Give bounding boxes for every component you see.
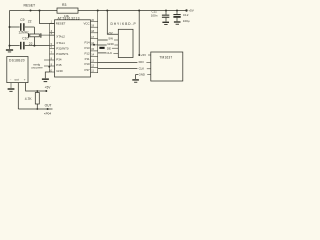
svg-text:TM1637: TM1637 xyxy=(159,55,172,59)
svg-text:100µ: 100µ xyxy=(183,19,190,23)
svg-text:-: - xyxy=(10,77,11,81)
svg-text:VCC: VCC xyxy=(83,22,89,26)
svg-text:XTAL1: XTAL1 xyxy=(56,41,65,45)
svg-text:SW: SW xyxy=(108,37,113,41)
svg-text:DE: DE xyxy=(107,46,111,50)
svg-text:DS18B20: DS18B20 xyxy=(9,58,25,62)
svg-text:DIO: DIO xyxy=(139,60,145,64)
svg-text:12MHz: 12MHz xyxy=(19,30,30,34)
svg-text:GND: GND xyxy=(56,69,62,73)
svg-text:C9: C9 xyxy=(20,18,24,22)
svg-text:C10: C10 xyxy=(22,37,28,41)
svg-text:CLK: CLK xyxy=(139,66,145,70)
svg-text:P35: P35 xyxy=(56,63,62,67)
svg-text:+5V: +5V xyxy=(188,8,195,12)
svg-text:P13: P13 xyxy=(84,46,90,50)
svg-text:P33/INT1: P33/INT1 xyxy=(56,52,69,56)
svg-text:DHY/KBD-P: DHY/KBD-P xyxy=(111,22,137,26)
svg-text:22: 22 xyxy=(29,42,33,46)
svg-text:100n: 100n xyxy=(151,13,158,17)
svg-text:CLK: CLK xyxy=(106,51,112,55)
svg-text:GND: GND xyxy=(139,73,145,77)
svg-text:P12: P12 xyxy=(84,51,90,55)
svg-text:out: out xyxy=(15,77,19,81)
svg-text:XTAL2: XTAL2 xyxy=(56,35,65,39)
svg-text:RESET: RESET xyxy=(24,3,37,7)
svg-text:+5V: +5V xyxy=(45,86,52,90)
svg-text:4.7K: 4.7K xyxy=(25,97,33,101)
svg-text:yny pene: yny pene xyxy=(31,65,43,69)
svg-text:×P04: ×P04 xyxy=(44,111,52,115)
svg-text:ATT8913213: ATT8913213 xyxy=(58,16,80,20)
svg-text:+5V: +5V xyxy=(108,31,113,35)
svg-text:OUT: OUT xyxy=(45,103,52,107)
svg-text:R3: R3 xyxy=(62,3,66,7)
svg-text:P34: P34 xyxy=(56,58,62,62)
svg-text:P32/INT0: P32/INT0 xyxy=(56,47,69,51)
svg-text:+: + xyxy=(24,77,26,81)
svg-text:22: 22 xyxy=(28,20,32,24)
svg-text:RESET: RESET xyxy=(56,22,66,26)
svg-text:C12: C12 xyxy=(183,13,189,17)
svg-text:P10: P10 xyxy=(84,62,90,66)
svg-text:P11: P11 xyxy=(85,57,90,61)
svg-text:+5V: +5V xyxy=(141,53,146,57)
svg-text:P37: P37 xyxy=(84,68,90,72)
svg-text:P14: P14 xyxy=(84,40,90,44)
